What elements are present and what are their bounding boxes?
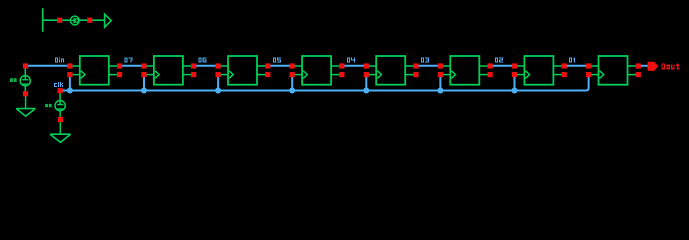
flip-flop U6 (DFF)	[438, 56, 493, 85]
voltage source V1 (Din stimulus)	[20, 63, 30, 96]
label net D3	[421, 57, 429, 62]
junction dot on clk at U3	[215, 88, 221, 94]
ground gnd2	[50, 122, 71, 142]
flip-flop U4 (DFF)	[290, 56, 345, 85]
wire clk stub to U6	[439, 75, 441, 91]
wire net clk (bus)	[58, 75, 589, 91]
wire net D3	[416, 65, 440, 67]
label net clk	[54, 82, 63, 87]
label net D4	[347, 57, 355, 62]
output port Dout	[648, 62, 659, 71]
wire net Din	[26, 65, 70, 67]
junction dot on clk at U2	[141, 88, 147, 94]
label net Din	[55, 57, 64, 62]
flip-flop U2 (DFF)	[141, 56, 196, 85]
label net D6	[199, 57, 207, 62]
junction dot on clk at U7	[512, 88, 518, 94]
flip-flop U3 (DFF)	[216, 56, 271, 85]
wire net D6	[194, 65, 218, 67]
flip-flop U1 (DFF)	[67, 56, 122, 85]
wire net D4	[342, 65, 366, 67]
ground gnd1	[16, 96, 35, 116]
voltage source V2 (clk stimulus)	[55, 88, 65, 122]
junction dot on clk at U1	[67, 88, 73, 94]
label net D7	[125, 57, 133, 62]
wire net D2	[490, 65, 514, 67]
wire clk stub to U7	[514, 75, 516, 91]
junction dot on clk at U4	[289, 88, 295, 94]
wire clk stub to U5	[365, 75, 367, 91]
flip-flop U7 (DFF)	[512, 56, 567, 85]
wire clk stub to U2	[143, 75, 145, 91]
wire net D1	[564, 65, 588, 67]
wire net D7	[120, 65, 144, 67]
wire clk stub to U4	[291, 75, 293, 91]
label net D5	[273, 57, 281, 62]
wire clk stub to U1	[69, 75, 71, 91]
wire clk stub to U3	[217, 75, 219, 91]
label net D1	[569, 57, 575, 62]
flip-flop U8 (DFF)	[586, 56, 641, 85]
junction dot on clk at U5	[363, 88, 369, 94]
flip-flop U5 (DFF)	[364, 56, 419, 85]
wire net D5	[268, 65, 292, 67]
annotation source symbol V0 (horizontal source with arrow)	[43, 8, 112, 32]
label port Dout	[662, 63, 680, 69]
junction dot on clk at U6	[437, 88, 443, 94]
label instance V1	[10, 78, 17, 82]
label net D2	[495, 57, 503, 62]
wire net Dout	[638, 65, 648, 67]
label instance V2	[45, 104, 52, 107]
